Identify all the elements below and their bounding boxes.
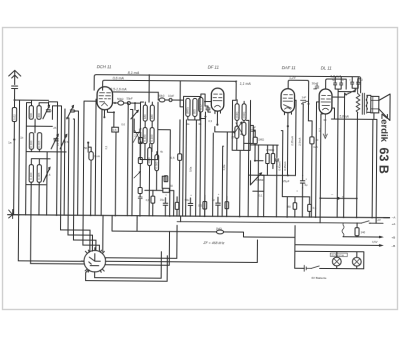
svg-text:1nF: 1nF bbox=[302, 95, 307, 99]
junction AF bbox=[287, 174, 289, 176]
coil 015 left of DF11 bbox=[199, 97, 203, 112]
tube DL11 pins bbox=[323, 114, 327, 139]
wire choke down bbox=[88, 99, 96, 215]
lamp 1 cross bbox=[334, 258, 340, 264]
wire chain v140 bbox=[136, 133, 140, 216]
rotary switch inner bbox=[89, 254, 101, 266]
svg-text:50pF: 50pF bbox=[127, 97, 134, 101]
svg-text:180: 180 bbox=[150, 114, 154, 119]
svg-text:80: 80 bbox=[288, 205, 292, 209]
wire 08 leads bbox=[152, 190, 154, 215]
wire v336 bbox=[336, 92, 339, 218]
coil L6 005 bbox=[37, 165, 41, 183]
wire output cathode link bbox=[320, 197, 356, 199]
svg-text:63 B: 63 B bbox=[376, 147, 390, 174]
speaker cone bbox=[379, 94, 390, 121]
wire v311 bbox=[308, 121, 312, 217]
svg-text:DCH 11: DCH 11 bbox=[97, 64, 112, 69]
svg-text:(030): (030) bbox=[235, 112, 239, 119]
resistor cluster 05 bbox=[203, 202, 207, 210]
resistor det load a bbox=[266, 154, 269, 164]
resistor 05 on v180 bbox=[178, 154, 182, 161]
wire v308 bbox=[294, 100, 308, 121]
wire DF11 cathode bbox=[204, 112, 206, 127]
svg-text:+B: +B bbox=[391, 236, 395, 240]
svg-text:1nF: 1nF bbox=[251, 125, 256, 129]
resistor 140 bbox=[355, 228, 359, 236]
svg-text:(060): (060) bbox=[242, 112, 246, 119]
wire v180 bbox=[178, 120, 181, 216]
IFT2 frame bbox=[232, 100, 250, 150]
wire v320 bbox=[320, 114, 322, 223]
wire ground bus bbox=[8, 215, 390, 218]
lower osc coil b bbox=[155, 155, 159, 171]
svg-text:0,6 mA: 0,6 mA bbox=[113, 76, 125, 80]
capacitor mid 253 bbox=[251, 130, 255, 132]
electrolytic 1u16V bbox=[216, 197, 221, 216]
coil L5 0100 bbox=[29, 165, 33, 183]
resistor cluster b bbox=[175, 202, 179, 209]
lower osc coils bbox=[148, 148, 152, 166]
coil L2 300 bbox=[37, 106, 41, 120]
osc coil b bbox=[193, 98, 197, 116]
IFT1 coil links bbox=[145, 102, 152, 160]
svg-text:4,5V: 4,5V bbox=[372, 240, 378, 244]
resistor chain b bbox=[138, 158, 142, 164]
svg-text:0,1: 0,1 bbox=[104, 145, 108, 149]
resistor 1F box bbox=[310, 137, 314, 144]
IFT1 trimmer arrows bbox=[133, 128, 142, 143]
junction mid bbox=[34, 125, 36, 127]
resistor chain c bbox=[138, 188, 142, 194]
electrolytic 4uF bbox=[300, 175, 304, 187]
wire MW column drop bbox=[31, 182, 86, 264]
IFT1 frame bbox=[140, 102, 158, 160]
wire grid cap node bbox=[87, 143, 89, 152]
junction v83 grid bbox=[87, 142, 89, 144]
tube DCH11 electrodes bbox=[99, 93, 111, 106]
svg-text:1MΩ: 1MΩ bbox=[216, 227, 222, 231]
wire 8.1mA anode rail bbox=[94, 75, 361, 93]
wire DL11 grid left bbox=[316, 102, 320, 217]
wire DCH11 pin drop bbox=[113, 112, 116, 215]
wire cluster 05 leads bbox=[204, 195, 206, 216]
svg-text:300: 300 bbox=[37, 113, 41, 118]
wire v282 bbox=[281, 131, 310, 197]
rotary switch contacts bbox=[81, 248, 108, 275]
wire 2.85mA verticals bbox=[295, 100, 303, 175]
wire cluster e leads bbox=[226, 196, 228, 216]
wire osc anode rail bbox=[113, 92, 159, 100]
capacitor chain bbox=[138, 197, 142, 199]
wire v253 bbox=[250, 125, 253, 138]
svg-text:0,1: 0,1 bbox=[348, 90, 352, 94]
wire v264 bbox=[262, 175, 264, 217]
coil L3 0100 bbox=[29, 133, 33, 150]
svg-text:25μF: 25μF bbox=[283, 179, 290, 183]
chassis arrow symbol bbox=[9, 209, 20, 218]
tube DF11 pins bbox=[214, 111, 234, 216]
wire +A line bbox=[177, 222, 383, 224]
trimmer C3 arrow bbox=[51, 134, 58, 149]
wire v162 bbox=[162, 176, 166, 188]
junction rail1 bbox=[148, 74, 150, 76]
volume pot arrow bbox=[250, 173, 261, 185]
wire det line bbox=[251, 130, 279, 161]
svg-text:0,6: 0,6 bbox=[121, 122, 125, 126]
svg-text:−B: −B bbox=[391, 244, 395, 248]
capacitor 1nF top bbox=[301, 100, 309, 102]
resistor 2nF chain bbox=[139, 138, 143, 144]
svg-text:0,100: 0,100 bbox=[29, 172, 33, 179]
coil L4 015 bbox=[37, 133, 41, 150]
lamp 2 cross bbox=[354, 259, 360, 265]
svg-text:2,9mA: 2,9mA bbox=[298, 138, 302, 146]
wire DF11 grid link bbox=[204, 102, 211, 217]
wire cluster b leads bbox=[176, 197, 178, 216]
resistor 1M ohm bbox=[216, 230, 223, 234]
resistor 1nF horizontal bbox=[163, 188, 170, 192]
wire osc coil leads bbox=[180, 107, 200, 216]
svg-text:2…: 2… bbox=[134, 133, 139, 137]
svg-text:0,8: 0,8 bbox=[146, 198, 150, 202]
wire under mid coils bbox=[26, 149, 66, 152]
junction 308 bbox=[308, 103, 310, 105]
rotary switch S1 bbox=[84, 250, 106, 272]
electrolytic 50uF bbox=[188, 198, 193, 216]
resistor grid stopper 50k bbox=[113, 102, 141, 104]
svg-text:0,180: 0,180 bbox=[143, 134, 147, 141]
svg-text:30nF: 30nF bbox=[312, 81, 319, 85]
svg-text:0,100: 0,100 bbox=[29, 140, 33, 147]
svg-text:−A: −A bbox=[392, 216, 396, 220]
svg-text:1a: 1a bbox=[8, 140, 12, 144]
svg-text:0,02: 0,02 bbox=[12, 114, 16, 120]
svg-text:0,05mA: 0,05mA bbox=[283, 161, 287, 171]
wire bus end arrow bbox=[384, 217, 390, 219]
wire h190 link bbox=[253, 190, 264, 192]
wire lower osc wiring bbox=[145, 144, 164, 216]
svg-text:0,005: 0,005 bbox=[37, 172, 41, 179]
resistor 0.5 box bbox=[112, 127, 119, 132]
wire coil 015 leads bbox=[201, 94, 206, 119]
electrolytic pair 1 bbox=[334, 77, 343, 90]
wire v358 down bbox=[344, 97, 358, 217]
svg-text:180: 180 bbox=[143, 114, 147, 119]
svg-text:0,3: 0,3 bbox=[208, 119, 212, 123]
wire 140 leads bbox=[356, 223, 358, 237]
speaker inner lines bbox=[371, 96, 379, 113]
IFT2 coil links bbox=[237, 100, 244, 151]
wire switch bottom loop1 bbox=[86, 251, 168, 281]
tube DL11 envelope bbox=[319, 89, 332, 114]
bus cluster resistor 08 bbox=[151, 196, 155, 203]
wire bottom cluster DAF bbox=[287, 197, 309, 217]
svg-text:140: 140 bbox=[361, 230, 366, 234]
output transformer core bbox=[362, 93, 364, 114]
wire IFT1 anode feed bbox=[148, 75, 150, 102]
IFT1 secondary coil a bbox=[143, 128, 147, 144]
IFT2 secondary coil a bbox=[235, 126, 239, 138]
lamp 1 bbox=[332, 257, 341, 266]
wire osc grid drop bbox=[134, 103, 136, 110]
wire switch right returns A bbox=[105, 225, 177, 260]
resistor cluster e bbox=[225, 202, 229, 209]
svg-text:4V Batterie: 4V Batterie bbox=[311, 276, 327, 280]
wire vertical v64 bbox=[63, 109, 66, 215]
svg-text:4μ: 4μ bbox=[304, 183, 308, 187]
svg-text:DL 11: DL 11 bbox=[321, 65, 332, 70]
wire vertical v57 bbox=[48, 102, 58, 215]
svg-text:m/A: m/A bbox=[313, 145, 318, 149]
resistor 80 bbox=[293, 203, 297, 210]
resistor 3M3 bbox=[253, 137, 257, 144]
svg-text:1mA: 1mA bbox=[94, 154, 100, 158]
junction DAF11 pin bbox=[287, 125, 289, 127]
wire det loads bbox=[255, 145, 277, 175]
wire v258 bbox=[257, 145, 260, 217]
wire 5.8mA line bbox=[331, 108, 377, 121]
svg-text:50kΩ: 50kΩ bbox=[117, 97, 123, 101]
junction bus crossings bbox=[18, 214, 20, 216]
svg-text:0,100: 0,100 bbox=[150, 134, 154, 141]
junction DF11 grid bbox=[204, 101, 206, 103]
capacitor 30nF bbox=[314, 84, 319, 89]
svg-text:86: 86 bbox=[53, 137, 57, 141]
wire osc grid chain bbox=[158, 99, 183, 101]
wire coil tops bbox=[32, 100, 49, 106]
wire padder down bbox=[127, 103, 140, 216]
svg-text:0,2: 0,2 bbox=[318, 128, 322, 132]
trimmer C5 arrow bbox=[43, 167, 50, 182]
svg-text:0,015: 0,015 bbox=[37, 140, 41, 147]
switch output diagonal bbox=[345, 90, 357, 95]
wire v170 bbox=[158, 130, 171, 216]
wire vertical v68 to switch bbox=[65, 118, 93, 251]
oscillator coil frame bbox=[183, 96, 200, 120]
capacitor osc grid bbox=[169, 99, 172, 102]
svg-text:1,2V: 1,2V bbox=[289, 76, 296, 80]
wire v248 bbox=[246, 120, 249, 216]
wire vertical v61 to switch bbox=[51, 106, 91, 251]
trimmer C4 arrow bbox=[60, 134, 67, 149]
junction link dots bbox=[319, 197, 321, 199]
IFT1 secondary coil b bbox=[150, 128, 154, 144]
wire vertical v78 bbox=[74, 111, 79, 215]
tube DAF11 electrodes bbox=[283, 95, 293, 110]
IFT1 primary coil a bbox=[143, 105, 147, 121]
wire vertical v83 to switch bbox=[83, 101, 101, 251]
tube DCH11 filament pin bbox=[104, 110, 114, 117]
junction bus dots bbox=[56, 214, 373, 218]
svg-text:10pF: 10pF bbox=[168, 94, 175, 98]
squiggle wire bbox=[342, 223, 344, 237]
capacitor at DF11 grid bbox=[206, 106, 211, 112]
switch battery bbox=[311, 266, 321, 269]
junction DF11 pin dot bbox=[216, 124, 218, 126]
trimmer chain arrow bbox=[134, 171, 141, 178]
wire vertical v74 to switch bbox=[72, 119, 97, 250]
antenna bbox=[9, 70, 21, 84]
svg-text:1,2V: 1,2V bbox=[375, 218, 381, 222]
resistor 05b bbox=[308, 204, 312, 211]
electrolytic on link bbox=[337, 197, 340, 200]
wire DL11 screen right bbox=[332, 93, 345, 97]
wire DL11 anode line bbox=[326, 79, 347, 89]
wire switch right returns B bbox=[106, 231, 258, 266]
svg-text:20: 20 bbox=[48, 109, 52, 113]
electrolytic pair 2 bbox=[351, 77, 360, 92]
resistor 50 small bbox=[164, 176, 168, 182]
svg-text:50: 50 bbox=[84, 146, 88, 150]
svg-text:2,85mA: 2,85mA bbox=[290, 136, 294, 146]
svg-text:0,1: 0,1 bbox=[259, 193, 263, 197]
svg-text:DF 11: DF 11 bbox=[208, 65, 219, 70]
output transformer secondary bbox=[366, 95, 368, 113]
resistor det load b bbox=[271, 154, 274, 164]
svg-text:1000: 1000 bbox=[147, 157, 151, 164]
choke 1mA box bbox=[89, 152, 93, 161]
svg-text:(880): (880) bbox=[186, 107, 190, 114]
wire lower coil tops bbox=[26, 159, 50, 215]
wire lower coil bottoms bbox=[39, 152, 47, 215]
coil L-ant 002 bbox=[12, 108, 17, 122]
svg-text:4 LSH 2 ta: 4 LSH 2 ta bbox=[331, 253, 344, 257]
wire antenna coil to tap 1a bbox=[13, 122, 16, 215]
speaker coil box bbox=[371, 96, 379, 113]
lamp 2 bbox=[352, 257, 361, 266]
svg-text:+A: +A bbox=[392, 222, 396, 226]
svg-text:0,5: 0,5 bbox=[171, 156, 175, 160]
svg-text:0,6a: 0,6a bbox=[188, 166, 192, 172]
trimmer C2 arrow bbox=[67, 105, 74, 119]
label lamp box bbox=[330, 253, 347, 257]
capacitor 100pF bbox=[127, 102, 130, 105]
svg-text:Zerdik: Zerdik bbox=[378, 113, 389, 142]
tube DAF11 pins bbox=[284, 113, 291, 127]
electrolytic 16uF bbox=[163, 198, 168, 216]
wire DAF11 drop bbox=[286, 126, 288, 175]
IFT2 trimmer arrows bbox=[234, 122, 243, 135]
svg-text:ZF = 468 kHz: ZF = 468 kHz bbox=[202, 241, 224, 245]
wire switch fifth drop bbox=[102, 215, 104, 251]
svg-text:0,5: 0,5 bbox=[113, 128, 117, 132]
tube DL11 electrodes bbox=[321, 95, 331, 110]
trimmer padder arrow bbox=[131, 110, 138, 119]
tube DF11 electrodes bbox=[213, 94, 222, 107]
osc coil a bbox=[186, 98, 190, 116]
junction det bbox=[254, 160, 256, 162]
wire 1M line bbox=[112, 216, 295, 238]
output transformer primary zigzag bbox=[356, 79, 361, 113]
switch +A bbox=[362, 221, 371, 223]
svg-text:0,15: 0,15 bbox=[198, 104, 202, 110]
wire AF line 174 bbox=[248, 161, 295, 186]
wire antenna node bbox=[14, 100, 31, 108]
tube DF11 envelope bbox=[211, 88, 224, 111]
wire IFT2 secondary out bbox=[240, 138, 254, 217]
IFT2 secondary coil b bbox=[242, 122, 246, 135]
tuner frame left bbox=[26, 103, 47, 185]
IFT2 primary coil a bbox=[235, 104, 239, 121]
junction antenna node bbox=[14, 99, 16, 101]
junction tap 1a bbox=[13, 138, 15, 140]
svg-text:1MΩ: 1MΩ bbox=[258, 137, 264, 141]
wire osc extra verticals bbox=[186, 118, 224, 216]
wire LW selector drop bbox=[18, 100, 85, 261]
svg-text:50k3: 50k3 bbox=[159, 94, 165, 98]
wire after 1nF bbox=[169, 190, 174, 216]
antenna series capacitor bbox=[12, 86, 18, 100]
wire lamp top line bbox=[295, 251, 364, 269]
junction pins bbox=[113, 111, 115, 113]
wire v132 bbox=[130, 109, 133, 215]
svg-text:0,45mA: 0,45mA bbox=[277, 161, 281, 171]
coil L1 500 bbox=[29, 106, 33, 120]
IFT2 primary coil b bbox=[242, 104, 246, 121]
wire +B line bbox=[343, 236, 382, 238]
svg-text:1,1 mA: 1,1 mA bbox=[240, 82, 252, 86]
junction rail2 bbox=[235, 80, 237, 82]
resistor osc grid leak bbox=[159, 98, 165, 102]
wire speaker connections bbox=[357, 95, 374, 119]
wire -B line bbox=[295, 244, 382, 246]
svg-text:0,000: 0,000 bbox=[154, 161, 158, 168]
wire DAF11 top cap loop 1.2V bbox=[288, 80, 309, 104]
misc tiny labels bbox=[20, 88, 352, 199]
svg-text:055: 055 bbox=[193, 109, 197, 114]
wire right verticals bbox=[372, 119, 377, 223]
battery cell bbox=[304, 265, 311, 271]
wire top rail stubs bbox=[149, 75, 180, 107]
wire v277 bbox=[275, 167, 277, 217]
svg-text:500: 500 bbox=[29, 113, 33, 118]
wire 0.6mA screen rail bbox=[103, 80, 237, 100]
wire lamp bottom line bbox=[295, 267, 364, 270]
junction sw bbox=[345, 94, 347, 96]
wire mid horizontal bbox=[26, 119, 52, 133]
wire lamp stubs bbox=[337, 252, 357, 269]
tube DCH11 envelope bbox=[97, 87, 113, 110]
svg-text:8,1 mA: 8,1 mA bbox=[128, 71, 140, 75]
wire v302 down bbox=[301, 188, 303, 217]
wire v295 down bbox=[294, 226, 296, 269]
wire caps to ground bbox=[338, 89, 355, 92]
tube DCH11 cathode pin bbox=[100, 110, 103, 216]
capacitor det bbox=[275, 159, 279, 167]
IFT1 primary coil b bbox=[150, 105, 154, 121]
svg-text:0,5: 0,5 bbox=[313, 206, 317, 210]
svg-text:16μ: 16μ bbox=[160, 198, 165, 202]
tube DAF11 envelope bbox=[281, 89, 295, 113]
trimmer C1 arrow bbox=[43, 105, 50, 119]
svg-text:DAF 11: DAF 11 bbox=[282, 65, 296, 70]
